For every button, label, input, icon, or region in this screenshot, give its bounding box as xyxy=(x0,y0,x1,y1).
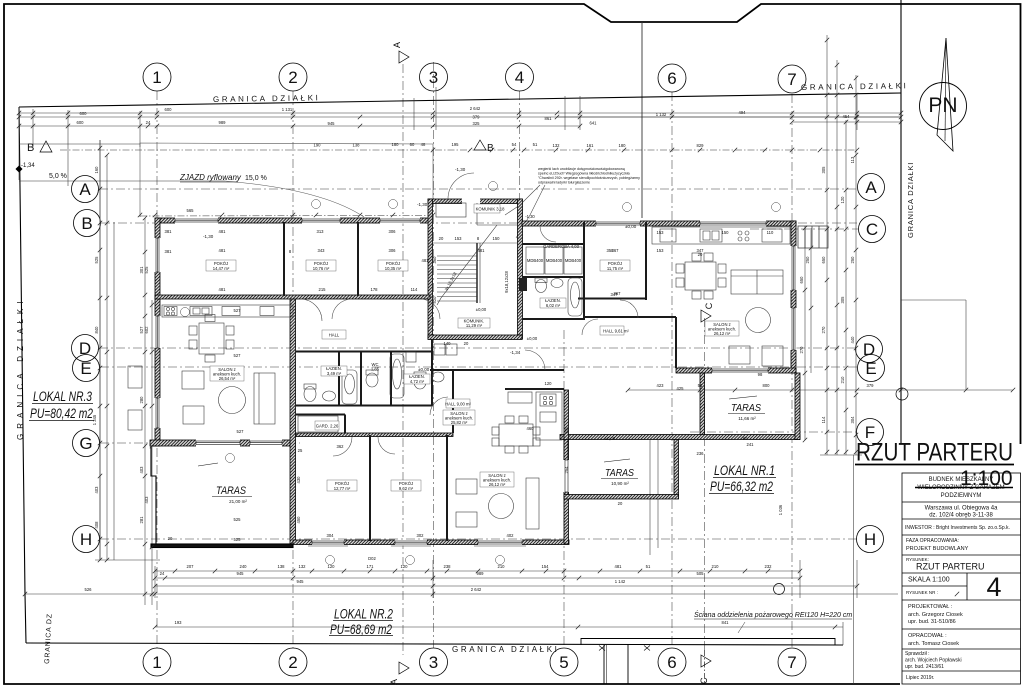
svg-text:98: 98 xyxy=(758,372,763,377)
terrace NR3 thin edges xyxy=(151,446,293,548)
svg-text:494: 494 xyxy=(739,110,747,115)
NR1 kitchen counter xyxy=(652,227,790,244)
svg-text:379: 379 xyxy=(867,383,875,388)
svg-text:138: 138 xyxy=(278,564,286,569)
svg-text:403: 403 xyxy=(139,466,144,474)
NR2 bottom windows xyxy=(312,540,344,546)
svg-text:460: 460 xyxy=(527,426,535,431)
svg-text:GRANICA DZIAŁKI: GRANICA DZIAŁKI xyxy=(452,645,559,654)
neighbor parcel vertical line xyxy=(641,22,643,218)
svg-text:MDB400: MDB400 xyxy=(546,258,563,263)
svg-text:408: 408 xyxy=(94,521,99,529)
svg-text:60: 60 xyxy=(410,142,415,147)
svg-text:-1,30: -1,30 xyxy=(525,214,535,219)
svg-text:12,77 m²: 12,77 m² xyxy=(334,486,351,491)
svg-text:G: G xyxy=(79,434,92,453)
svg-text:H: H xyxy=(864,530,876,549)
NR2 terrace walls xyxy=(564,440,568,499)
svg-text:565: 565 xyxy=(187,208,195,213)
svg-text:1 345: 1 345 xyxy=(92,414,97,425)
svg-text:236: 236 xyxy=(697,451,705,456)
svg-text:14,47 m²: 14,47 m² xyxy=(213,266,230,271)
svg-text:1: 1 xyxy=(152,653,161,672)
svg-text:10,35 m²: 10,35 m² xyxy=(385,266,402,271)
svg-text:481: 481 xyxy=(422,258,430,263)
svg-text:A: A xyxy=(392,42,402,48)
svg-text:215: 215 xyxy=(319,287,327,292)
svg-text:±0,00: ±0,00 xyxy=(418,367,430,372)
svg-text:9x18,12x28: 9x18,12x28 xyxy=(504,271,509,293)
svg-text:PU=66,32 m2: PU=66,32 m2 xyxy=(710,478,773,494)
svg-text:402: 402 xyxy=(507,533,515,538)
svg-text:302: 302 xyxy=(417,533,425,538)
stairwell bump top xyxy=(428,199,522,204)
door swing arcs xyxy=(300,173,638,456)
svg-text:481: 481 xyxy=(615,564,623,569)
svg-text:TARAS: TARAS xyxy=(605,467,634,479)
svg-text:650: 650 xyxy=(799,276,804,284)
svg-text:861: 861 xyxy=(545,116,553,121)
svg-text:arch. Tomasz Ciosek: arch. Tomasz Ciosek xyxy=(908,641,959,647)
bottom dim rows xyxy=(155,570,800,572)
shaft xyxy=(519,278,527,291)
NR1 armchairs xyxy=(729,346,750,364)
room label boxes xyxy=(206,204,739,491)
svg-text:wegierki lach unoblizuje dotęp: wegierki lach unoblizuje dotępnościowośc… xyxy=(538,167,625,171)
top wall left wing xyxy=(155,218,430,223)
svg-text:210: 210 xyxy=(498,564,506,569)
left boundary line xyxy=(19,107,26,643)
svg-text:304: 304 xyxy=(850,416,855,424)
svg-text:840: 840 xyxy=(94,326,99,334)
svg-text:Lipiec 2019r.: Lipiec 2019r. xyxy=(906,675,934,681)
svg-text:MDB400: MDB400 xyxy=(527,258,544,263)
svg-text:7: 7 xyxy=(787,653,796,672)
svg-text:195: 195 xyxy=(452,142,460,147)
svg-text:600: 600 xyxy=(80,111,88,116)
svg-text:6: 6 xyxy=(667,69,676,88)
svg-text:PROJEKTOWAŁ :: PROJEKTOWAŁ : xyxy=(908,604,953,610)
svg-text:241: 241 xyxy=(747,442,755,447)
salon bottom / terrace top wall NR3 xyxy=(150,440,293,446)
NR1 terrace bottom wall xyxy=(560,435,800,440)
svg-text:C: C xyxy=(704,302,714,309)
svg-text:-1,34: -1,34 xyxy=(510,350,521,355)
right horiz dims xyxy=(557,116,901,118)
NR1 terrace right wall xyxy=(795,373,800,440)
svg-text:1 036: 1 036 xyxy=(778,504,783,515)
svg-text:PODZIEMNYM: PODZIEMNYM xyxy=(941,493,982,499)
svg-text:MDB400: MDB400 xyxy=(565,258,582,263)
svg-text:120: 120 xyxy=(401,564,409,569)
svg-text:6: 6 xyxy=(667,653,676,672)
svg-text:54: 54 xyxy=(512,142,517,147)
svg-text:362: 362 xyxy=(337,444,345,449)
svg-text:26,54 m²: 26,54 m² xyxy=(219,376,236,381)
svg-text:24: 24 xyxy=(160,571,165,576)
svg-text:600: 600 xyxy=(165,107,173,112)
svg-text:403: 403 xyxy=(94,486,99,494)
svg-text:5: 5 xyxy=(559,653,568,672)
svg-text:360: 360 xyxy=(432,256,437,264)
svg-text:-1,30: -1,30 xyxy=(417,202,428,207)
svg-text:6,02 m²: 6,02 m² xyxy=(546,303,561,308)
svg-text:306: 306 xyxy=(389,229,397,234)
svg-text:RYSUNEK NR :: RYSUNEK NR : xyxy=(906,590,938,595)
svg-text:207: 207 xyxy=(187,564,195,569)
top dim row 1 xyxy=(19,112,901,114)
svg-text:1,85: 1,85 xyxy=(371,367,380,372)
ticks on top dims xyxy=(0,0,1,1)
svg-text:600: 600 xyxy=(77,120,85,125)
svg-text:C: C xyxy=(699,677,709,684)
svg-text:±0,00: ±0,00 xyxy=(625,224,637,229)
svg-text:OPRACOWAŁ :: OPRACOWAŁ : xyxy=(908,633,947,639)
svg-text:D: D xyxy=(79,339,91,358)
svg-text:51: 51 xyxy=(533,142,538,147)
svg-text:232: 232 xyxy=(765,564,773,569)
svg-text:80: 80 xyxy=(743,436,748,441)
svg-text:48: 48 xyxy=(421,142,426,147)
svg-text:120: 120 xyxy=(840,196,845,204)
NR2 rooms top wall xyxy=(296,433,453,437)
svg-text:11,66 m²: 11,66 m² xyxy=(738,416,756,421)
NR3 couch xyxy=(254,373,275,424)
windows: white gaps with thin double lines xyxy=(155,218,797,546)
svg-text:BUDNEK MIESZKALNY: BUDNEK MIESZKALNY xyxy=(929,477,994,483)
svg-text:525: 525 xyxy=(144,266,149,274)
svg-text:25,82 m²: 25,82 m² xyxy=(451,420,468,425)
svg-text:WIELORODZINNY Z GARAŻEM: WIELORODZINNY Z GARAŻEM xyxy=(917,484,1004,491)
NR2 hall closet xyxy=(298,416,338,432)
bath fixtures NR3 xyxy=(304,387,316,402)
svg-text:1 131: 1 131 xyxy=(282,107,293,112)
svg-text:210: 210 xyxy=(712,564,720,569)
svg-text:171: 171 xyxy=(367,564,375,569)
svg-text:FAZA OPRACOWANIA:: FAZA OPRACOWANIA: xyxy=(906,538,959,544)
svg-text:138: 138 xyxy=(353,143,361,148)
svg-text:11,75 m²: 11,75 m² xyxy=(607,266,624,271)
ZJAZD + misc annotations xyxy=(21,163,267,182)
NR2 kitchen xyxy=(536,392,562,440)
svg-text:989: 989 xyxy=(219,120,227,125)
svg-text:HALL 9,00 m²: HALL 9,00 m² xyxy=(445,402,471,407)
svg-text:-1,30: -1,30 xyxy=(203,234,214,239)
svg-text:2: 2 xyxy=(288,68,297,87)
svg-text:ZJAZD ryflowany: ZJAZD ryflowany xyxy=(179,173,242,182)
svg-text:21,00 m²: 21,00 m² xyxy=(229,499,247,504)
left exterior wall xyxy=(155,218,160,446)
vertical extents top-left xyxy=(18,107,20,180)
svg-text:180: 180 xyxy=(392,142,400,147)
svg-text:800: 800 xyxy=(763,383,771,388)
svg-text:178: 178 xyxy=(371,287,379,292)
svg-text:Sprawdził :: Sprawdził : xyxy=(905,651,929,657)
svg-text:481: 481 xyxy=(219,248,227,253)
svg-text:481: 481 xyxy=(478,248,486,253)
entrance annex top right xyxy=(798,226,828,248)
svg-text:525: 525 xyxy=(234,537,242,542)
svg-text:PN: PN xyxy=(928,94,957,117)
terrace NR3 right wall / NR2 left wall xyxy=(290,298,296,544)
svg-text:440: 440 xyxy=(850,336,855,344)
svg-text:423: 423 xyxy=(657,383,665,388)
top wall windows xyxy=(175,218,218,224)
bottom boundary line xyxy=(26,643,843,645)
svg-text:20: 20 xyxy=(168,536,173,541)
svg-text:305: 305 xyxy=(840,296,845,304)
NR1 terrace left wall xyxy=(700,373,705,436)
svg-text:520: 520 xyxy=(564,426,569,434)
svg-text:B: B xyxy=(487,143,494,154)
svg-text:4: 4 xyxy=(515,68,524,87)
top dim row 3 xyxy=(19,125,580,127)
svg-text:3: 3 xyxy=(429,68,438,87)
svg-text:153: 153 xyxy=(455,236,463,241)
svg-text:306: 306 xyxy=(389,248,397,253)
svg-text:INWESTOR : Bright Investments: INWESTOR : Bright Investments Sp. zo.o.S… xyxy=(905,525,1010,531)
right wing right wall xyxy=(791,221,796,373)
svg-text:Ściana oddzielenia pożarowego: Ściana oddzielenia pożarowego REI120 H=2… xyxy=(694,610,852,619)
svg-text:525: 525 xyxy=(234,517,242,522)
svg-text:379: 379 xyxy=(473,115,481,120)
svg-text:E: E xyxy=(865,359,876,378)
junction circles xyxy=(774,584,785,595)
svg-text:24: 24 xyxy=(146,120,151,125)
svg-text:10,90 m²: 10,90 m² xyxy=(611,481,629,486)
bath fixtures NR2 xyxy=(390,354,404,398)
svg-text:TARAS: TARAS xyxy=(731,402,761,414)
svg-text:LOKAL NR.1: LOKAL NR.1 xyxy=(714,462,775,478)
svg-text:9,62 m²: 9,62 m² xyxy=(399,486,414,491)
stairwell left wall xyxy=(428,199,433,339)
stairwell right wall xyxy=(518,199,523,339)
svg-text:LOKAL NR.3: LOKAL NR.3 xyxy=(33,388,92,404)
svg-text:270: 270 xyxy=(821,326,826,334)
NR2 furniture xyxy=(456,479,477,494)
svg-text:113: 113 xyxy=(850,156,855,163)
B section marker top-left xyxy=(27,140,494,154)
svg-text:250: 250 xyxy=(805,256,810,264)
LOKAL labels xyxy=(30,388,775,637)
svg-text:829: 829 xyxy=(697,143,705,148)
svg-text:989: 989 xyxy=(477,571,485,576)
svg-text:E: E xyxy=(80,359,91,378)
svg-text:161: 161 xyxy=(587,143,595,148)
svg-text:arch. Wojciech Popławski: arch. Wojciech Popławski xyxy=(905,658,962,664)
svg-text:26,12 m²: 26,12 m² xyxy=(714,331,731,336)
svg-text:250: 250 xyxy=(850,256,855,264)
svg-text:LOKAL NR.2: LOKAL NR.2 xyxy=(334,606,393,622)
svg-text:945: 945 xyxy=(328,121,336,126)
right wall windows xyxy=(791,246,797,290)
svg-text:RZUT PARTERU: RZUT PARTERU xyxy=(856,439,1013,467)
svg-text:602: 602 xyxy=(144,326,149,334)
svg-text:D: D xyxy=(863,340,875,359)
svg-text:51: 51 xyxy=(646,564,651,569)
svg-text:GARD. 2,26: GARD. 2,26 xyxy=(316,424,339,429)
svg-text:GRANICA DZIAŁKI: GRANICA DZIAŁKI xyxy=(906,162,915,238)
svg-text:B: B xyxy=(81,214,92,233)
NR2 right wall xyxy=(564,390,569,544)
svg-text:SKALA 1:100: SKALA 1:100 xyxy=(908,577,950,584)
svg-text:dz. 102/4 obręb 3-11-38: dz. 102/4 obręb 3-11-38 xyxy=(929,513,993,519)
svg-text:132: 132 xyxy=(299,564,307,569)
svg-text:114: 114 xyxy=(821,416,826,423)
svg-text:153: 153 xyxy=(657,248,665,253)
stairwell bottom wall xyxy=(428,335,522,340)
svg-text:425: 425 xyxy=(677,386,685,391)
svg-text:381: 381 xyxy=(165,229,173,234)
bath fixtures NR1 xyxy=(536,280,547,293)
ZJAZD area xyxy=(19,180,225,182)
svg-text:Warszawa ul. Obiegowa 4a: Warszawa ul. Obiegowa 4a xyxy=(925,506,998,512)
svg-text:arch. Grzegorz Ciosek: arch. Grzegorz Ciosek xyxy=(908,612,963,618)
svg-text:TARAS: TARAS xyxy=(216,485,247,497)
svg-text:4,72 m²: 4,72 m² xyxy=(410,379,425,384)
svg-text:11,29 m²: 11,29 m² xyxy=(466,323,483,328)
svg-text:240: 240 xyxy=(240,564,248,569)
svg-text:403: 403 xyxy=(144,496,149,504)
NR1 dining table + chairs xyxy=(685,262,716,290)
svg-text:26,12 m²: 26,12 m² xyxy=(489,482,506,487)
svg-text:430: 430 xyxy=(296,476,301,484)
svg-text:525: 525 xyxy=(94,256,99,264)
NR3 salon bottom window/door xyxy=(196,440,240,447)
svg-text:481: 481 xyxy=(219,229,227,234)
svg-text:GRANICA DZIAŁKI: GRANICA DZIAŁKI xyxy=(801,81,909,92)
svg-text:120: 120 xyxy=(545,381,553,386)
svg-text:1 142: 1 142 xyxy=(615,579,626,584)
svg-text:190: 190 xyxy=(314,143,322,148)
svg-text:358: 358 xyxy=(607,248,615,253)
svg-text:150: 150 xyxy=(722,230,730,235)
NR3 dining table + chairs xyxy=(199,323,224,354)
svg-text:GRANICA DZIAŁKI: GRANICA DZIAŁKI xyxy=(213,93,321,104)
svg-text:-1,30: -1,30 xyxy=(455,167,466,172)
svg-text:20: 20 xyxy=(439,236,444,241)
svg-text:20: 20 xyxy=(464,341,469,346)
svg-text:C: C xyxy=(866,220,878,239)
svg-text:PROJEKT BUDOWLANY: PROJEKT BUDOWLANY xyxy=(906,546,969,552)
svg-text:upr. bud. 31-510/86: upr. bud. 31-510/86 xyxy=(908,619,956,625)
svg-text:1: 1 xyxy=(152,68,161,87)
svg-text:spełnc eLIZbud? Włegzegówna li: spełnc eLIZbud? Włegzegówna likłośrichło… xyxy=(538,172,630,176)
svg-text:15,0 %: 15,0 % xyxy=(245,175,267,182)
top dim row 2 xyxy=(19,116,901,118)
svg-text:HALL 9,61 m²: HALL 9,61 m² xyxy=(603,329,629,334)
svg-text:193: 193 xyxy=(175,620,183,625)
svg-text:4: 4 xyxy=(986,572,1001,602)
svg-text:2 642: 2 642 xyxy=(470,106,481,111)
rooms bottom wall left wing xyxy=(155,295,430,299)
svg-text:3,49 m²: 3,49 m² xyxy=(327,371,342,376)
svg-text:154: 154 xyxy=(542,564,550,569)
svg-text:20: 20 xyxy=(618,501,623,506)
svg-text:RZUT PARTERU: RZUT PARTERU xyxy=(916,562,985,572)
NR1 round table xyxy=(746,308,771,333)
section markers A / C xyxy=(399,51,711,674)
svg-text:481: 481 xyxy=(219,287,227,292)
Sciana note xyxy=(694,610,852,633)
svg-text:381: 381 xyxy=(165,249,173,254)
svg-text:GARDEROBA 4,03: GARDEROBA 4,03 xyxy=(543,244,580,249)
svg-text:140: 140 xyxy=(444,341,452,346)
bottom fire wall dim xyxy=(155,626,843,628)
svg-text:A: A xyxy=(79,180,91,199)
svg-text:114: 114 xyxy=(411,287,418,292)
small window circles with labels xyxy=(181,182,781,565)
svg-text:10,76 m²: 10,76 m² xyxy=(313,266,330,271)
PN compass xyxy=(920,83,967,130)
interior partitions xyxy=(284,222,676,541)
svg-text:H: H xyxy=(80,530,92,549)
svg-text:505: 505 xyxy=(697,571,705,576)
svg-text:945: 945 xyxy=(237,571,245,576)
svg-text:520: 520 xyxy=(432,296,437,304)
svg-text:254: 254 xyxy=(564,466,569,474)
svg-text:160: 160 xyxy=(94,166,99,174)
stairs xyxy=(433,203,517,305)
svg-text:A: A xyxy=(389,679,399,685)
dim row above building xyxy=(140,215,433,218)
misc leader for note xyxy=(505,185,540,215)
svg-text:5,0 %: 5,0 % xyxy=(49,173,67,180)
svg-text:180: 180 xyxy=(619,143,627,148)
svg-text:526: 526 xyxy=(85,587,93,592)
svg-text:280: 280 xyxy=(139,396,144,404)
svg-text:527: 527 xyxy=(234,353,242,358)
svg-text:450: 450 xyxy=(296,516,301,524)
svg-text:2: 2 xyxy=(288,653,297,672)
FURNITURE xyxy=(128,227,790,529)
svg-text:210: 210 xyxy=(840,376,845,384)
svg-text:641: 641 xyxy=(590,121,598,126)
svg-text:KOMUNIK 3,18: KOMUNIK 3,18 xyxy=(476,207,506,212)
left wall windows xyxy=(155,238,161,272)
right boundary line xyxy=(900,0,902,447)
svg-text:238: 238 xyxy=(444,564,452,569)
right wing bottom window xyxy=(712,368,768,374)
svg-text:313: 313 xyxy=(317,229,325,234)
svg-text:-1,34: -1,34 xyxy=(21,163,35,169)
NR3 armchairs xyxy=(182,371,204,389)
svg-text:20: 20 xyxy=(698,252,703,257)
svg-text:650: 650 xyxy=(821,256,826,264)
svg-text:343: 343 xyxy=(318,248,326,253)
right wing bottom wall xyxy=(676,368,796,373)
svg-text:25: 25 xyxy=(298,448,303,453)
NR1 wardrobes MDB400 xyxy=(526,247,544,274)
svg-text:upr. bud. 2413/61: upr. bud. 2413/61 xyxy=(905,664,944,670)
svg-text:HALL: HALL xyxy=(329,333,340,338)
svg-text:PU=68,69 m2: PU=68,69 m2 xyxy=(330,621,392,637)
svg-text:±0,00: ±0,00 xyxy=(605,436,616,441)
svg-text:D02: D02 xyxy=(368,556,376,561)
svg-text:527: 527 xyxy=(234,308,242,313)
svg-text:±0,00: ±0,00 xyxy=(527,336,538,341)
svg-text:1 132: 1 132 xyxy=(656,112,667,117)
top wall right wing xyxy=(522,221,796,226)
svg-text:304: 304 xyxy=(327,533,335,538)
svg-text:150: 150 xyxy=(493,236,501,241)
svg-text:7: 7 xyxy=(787,70,796,89)
svg-text:"Chwalinii 292r. wrgełase sier: "Chwalinii 292r. wrgełase sierullipochło… xyxy=(538,176,640,180)
svg-text:110: 110 xyxy=(767,230,774,235)
svg-text:PU=80,42 m2: PU=80,42 m2 xyxy=(30,405,93,421)
svg-text:153: 153 xyxy=(657,230,665,235)
NR2 bottom wall xyxy=(293,540,569,545)
